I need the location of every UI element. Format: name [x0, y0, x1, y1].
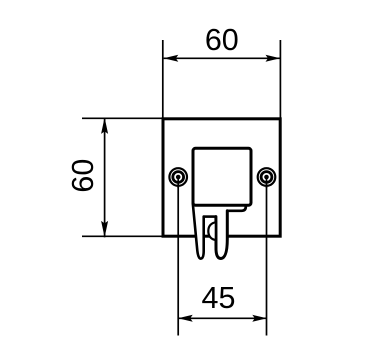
svg-text:60: 60: [66, 159, 100, 193]
svg-text:45: 45: [202, 281, 236, 315]
svg-text:60: 60: [205, 23, 239, 57]
